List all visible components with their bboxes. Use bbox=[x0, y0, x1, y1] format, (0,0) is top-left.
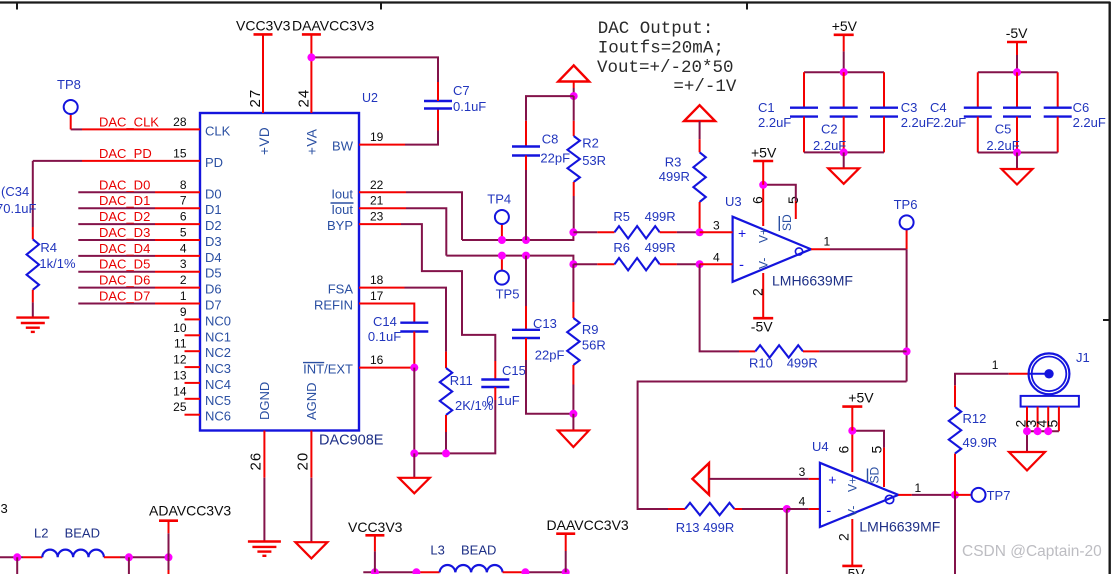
wire U4 out bbox=[912, 494, 955, 496]
junction L3/VCC3V3 bbox=[371, 568, 379, 574]
inductor L3 (BEAD) bbox=[440, 565, 503, 572]
J1 shell rect bbox=[1021, 396, 1079, 407]
power -5V bar U4 bbox=[842, 565, 862, 568]
svg-text:70.1uF: 70.1uF bbox=[0, 201, 37, 216]
resistor R5 bbox=[615, 226, 660, 238]
wire C4-C6 bottom rail bbox=[978, 152, 1058, 154]
svg-text:NC1: NC1 bbox=[205, 329, 231, 344]
svg-text:DAC Output:: DAC Output: bbox=[598, 19, 714, 39]
resistor R6 bbox=[615, 258, 660, 270]
junction C13/R9 gnd node bbox=[569, 410, 577, 418]
resistor R3 top lead bbox=[699, 139, 701, 152]
resistor R9 bbox=[567, 318, 579, 365]
svg-text:LMH6639MF: LMH6639MF bbox=[772, 273, 853, 289]
wire C13 to gnd node bbox=[526, 360, 573, 414]
junction L2/ADAVCC3V3 bbox=[165, 553, 173, 561]
wire gnd rail stub bbox=[413, 453, 415, 477]
svg-text:13: 13 bbox=[173, 368, 187, 382]
svg-text:5: 5 bbox=[869, 446, 885, 454]
svg-text:3: 3 bbox=[713, 219, 720, 233]
capacitor C13 bbox=[512, 329, 540, 331]
svg-text:25: 25 bbox=[173, 400, 187, 414]
wire L2 row left bbox=[0, 556, 23, 558]
junction L3 b bbox=[412, 568, 420, 574]
capacitor C2 top lead bbox=[843, 72, 845, 108]
wire pin22 stub bbox=[359, 191, 406, 193]
svg-text:C5: C5 bbox=[995, 122, 1012, 137]
svg-text:4: 4 bbox=[180, 241, 187, 255]
connector J1 coax bbox=[1029, 373, 1046, 375]
capacitor C3 bbox=[870, 106, 898, 108]
svg-text:6: 6 bbox=[180, 210, 187, 224]
U3 pin 3 stub bbox=[700, 231, 733, 233]
svg-text:4: 4 bbox=[713, 251, 720, 265]
svg-text:C7: C7 bbox=[453, 83, 470, 98]
wire row A bbox=[462, 232, 573, 240]
wire R5 right bbox=[677, 231, 700, 233]
U4 pin 4 stub bbox=[809, 508, 820, 510]
power +5V (U3) bbox=[762, 161, 764, 185]
power DAAVCC3V3 bar bbox=[302, 33, 321, 36]
svg-text:R6: R6 bbox=[613, 240, 630, 255]
svg-text:Iout: Iout bbox=[331, 202, 353, 217]
svg-text:-5V: -5V bbox=[1006, 25, 1028, 41]
power -5V bar U3 bbox=[753, 317, 773, 320]
wire drop a bbox=[16, 557, 18, 574]
svg-text:499R: 499R bbox=[645, 240, 676, 255]
inductor L3 right lead bbox=[503, 571, 526, 573]
resistor R11 bbox=[440, 368, 452, 415]
wire net DAC_CLK bbox=[71, 128, 82, 130]
wire L3 row right bbox=[525, 571, 565, 573]
capacitor C15 bottom lead bbox=[494, 387, 496, 400]
wire net DAC_D0 bbox=[78, 191, 155, 193]
svg-text:(C34: (C34 bbox=[1, 184, 29, 199]
svg-text:DGND: DGND bbox=[257, 382, 272, 420]
junction C13/rowB bbox=[522, 252, 530, 260]
svg-text:499R: 499R bbox=[787, 356, 818, 371]
junction U4 +5V bbox=[848, 427, 856, 435]
wire pin4 down to R10 bbox=[700, 264, 739, 351]
wire PD to R4 bbox=[32, 161, 34, 227]
capacitor C3 bottom lead bbox=[883, 117, 885, 153]
svg-text:V+: V+ bbox=[846, 477, 860, 492]
svg-text:CLK: CLK bbox=[205, 123, 231, 138]
svg-text:4: 4 bbox=[799, 495, 806, 509]
wire C1-C3 bottom rail bbox=[804, 151, 884, 153]
wire out node down bbox=[954, 495, 956, 574]
svg-text:R12: R12 bbox=[963, 411, 987, 426]
wire R9 to gnd node bbox=[572, 385, 574, 414]
svg-text:D6: D6 bbox=[205, 282, 222, 297]
svg-text:11: 11 bbox=[174, 337, 187, 351]
power +5V (U4) bbox=[851, 407, 853, 431]
svg-text:20: 20 bbox=[295, 452, 312, 471]
junction J1 pin4 bbox=[1044, 427, 1052, 435]
svg-text:AGND: AGND bbox=[304, 382, 319, 420]
inductor L2 right lead bbox=[104, 556, 120, 558]
svg-text:C4: C4 bbox=[930, 100, 947, 115]
junction top rail +5V bbox=[840, 68, 848, 76]
U2 pin 25 (NC6) stub bbox=[185, 414, 201, 416]
svg-text:FSA: FSA bbox=[328, 282, 354, 297]
wire R2 to R5 node bbox=[573, 196, 575, 232]
power VCC3V3 bar bbox=[254, 33, 273, 36]
svg-text:VCC3V3: VCC3V3 bbox=[348, 519, 403, 535]
svg-text:10: 10 bbox=[173, 321, 187, 335]
svg-text:-: - bbox=[739, 257, 744, 274]
wire FSA to R11 bbox=[405, 288, 447, 352]
test point TP8 stub bbox=[70, 114, 72, 130]
svg-text:LMH6639MF: LMH6639MF bbox=[859, 519, 940, 535]
svg-text:17: 17 bbox=[370, 289, 384, 303]
svg-text:6: 6 bbox=[836, 446, 852, 454]
svg-text:1: 1 bbox=[992, 358, 999, 372]
test point TP4 bbox=[495, 210, 509, 224]
svg-text:3: 3 bbox=[180, 257, 187, 271]
resistor R9 top lead bbox=[572, 302, 574, 318]
svg-text:12: 12 bbox=[173, 353, 187, 367]
U2 pin 24 (+VA) bbox=[310, 34, 312, 113]
wire net DAC_D5 bbox=[78, 271, 155, 273]
svg-text:28: 28 bbox=[173, 115, 187, 129]
wire C1-C3 top rail bbox=[804, 71, 884, 73]
svg-text:DAC_D1: DAC_D1 bbox=[99, 193, 150, 208]
capacitor C6 bottom lead bbox=[1057, 117, 1059, 153]
resistor R2 top lead bbox=[573, 121, 575, 136]
svg-text:SD: SD bbox=[780, 214, 794, 231]
junction R11/gnd rail bbox=[442, 449, 450, 457]
svg-text:5: 5 bbox=[785, 196, 801, 204]
capacitor C7 top lead bbox=[437, 82, 439, 101]
power -5V (C4-C6) bbox=[1016, 42, 1018, 55]
svg-text:TP7: TP7 bbox=[987, 488, 1011, 503]
svg-text:22pF: 22pF bbox=[535, 348, 565, 363]
wire C-group gnd stub bbox=[843, 152, 845, 168]
wire net DAC_D6 bbox=[78, 287, 155, 289]
J1 pin 3 stub bbox=[1037, 407, 1039, 432]
svg-text:NC2: NC2 bbox=[205, 345, 231, 360]
capacitor C1 bbox=[790, 106, 818, 108]
resistor R3 bbox=[693, 152, 705, 202]
wire C4-C6 gnd stub bbox=[1016, 153, 1018, 170]
wire C7 top to +VA bbox=[311, 57, 438, 82]
capacitor C13 top lead bbox=[525, 306, 527, 330]
power +5V (C1-C3) bbox=[843, 35, 845, 52]
U2 pin 13 (NC4) stub bbox=[185, 382, 201, 384]
svg-text:TP5: TP5 bbox=[496, 287, 520, 302]
resistor R3 bottom lead bbox=[699, 202, 701, 232]
svg-text:+: + bbox=[738, 225, 746, 241]
power arrow above R3 bbox=[684, 105, 715, 121]
wire R10 right bbox=[819, 350, 906, 352]
svg-text:-: - bbox=[826, 503, 831, 520]
capacitor C5 bottom lead bbox=[1016, 117, 1018, 153]
svg-text:1: 1 bbox=[915, 481, 922, 495]
wire R12 to J1 bbox=[955, 374, 1009, 386]
svg-text:2.2uF: 2.2uF bbox=[986, 138, 1019, 153]
svg-text:PD: PD bbox=[205, 155, 223, 170]
capacitor C4 bottom lead bbox=[977, 117, 979, 153]
svg-text:5: 5 bbox=[180, 226, 187, 240]
resistor R12 bbox=[949, 407, 961, 454]
svg-text:7: 7 bbox=[180, 194, 187, 208]
sheet border top line bbox=[0, 1, 1111, 3]
svg-text:R4: R4 bbox=[40, 240, 57, 255]
svg-text:NC5: NC5 bbox=[205, 393, 231, 408]
U4 pin 5 stub bbox=[883, 448, 885, 487]
junction bottom rail C5 bbox=[1013, 149, 1021, 157]
svg-text:-5V: -5V bbox=[751, 319, 773, 335]
svg-text:15: 15 bbox=[173, 146, 187, 160]
svg-text:2.2uF: 2.2uF bbox=[758, 115, 791, 130]
U2 pin 20 (AGND) bbox=[310, 431, 312, 478]
svg-text:DAC_D4: DAC_D4 bbox=[99, 241, 150, 256]
wire INT/EXT to ground bbox=[413, 368, 415, 454]
wire net DAC_D7 bbox=[78, 303, 155, 305]
svg-text:DAC_D2: DAC_D2 bbox=[99, 209, 150, 224]
J1 pin 2 stub bbox=[1026, 407, 1028, 432]
junction U4 pin4 bbox=[783, 505, 791, 513]
U2 pin 9 (NC0) stub bbox=[185, 318, 201, 320]
svg-text:24: 24 bbox=[295, 89, 312, 108]
svg-text:C15: C15 bbox=[502, 363, 526, 378]
svg-text:C2: C2 bbox=[821, 122, 838, 137]
wire net DAC_D2 bbox=[78, 223, 155, 225]
svg-text:+: + bbox=[828, 471, 836, 487]
wire TP6 node down bbox=[906, 249, 908, 381]
ground (earth) DGND bbox=[248, 540, 281, 542]
power arrow VOUTA bbox=[558, 65, 589, 81]
capacitor C5 bbox=[1003, 106, 1031, 108]
junction bottom rail C2 bbox=[840, 148, 848, 156]
svg-text:NC6: NC6 bbox=[205, 409, 231, 424]
svg-text:499R: 499R bbox=[645, 209, 676, 224]
U2 pin 14 (NC5) stub bbox=[185, 398, 201, 400]
wire rowB node to R9 bbox=[572, 264, 574, 302]
resistor R4 bottom lead bbox=[32, 290, 34, 303]
wire R3 arrow stem bbox=[699, 121, 701, 139]
svg-text:19: 19 bbox=[370, 130, 384, 144]
svg-text:DAC_D6: DAC_D6 bbox=[99, 273, 150, 288]
svg-text:2.2uF: 2.2uF bbox=[901, 115, 934, 130]
svg-text:1: 1 bbox=[824, 235, 831, 249]
svg-text:DAAVCC3V3: DAAVCC3V3 bbox=[292, 18, 374, 34]
svg-text:=+/-1V: =+/-1V bbox=[673, 77, 737, 97]
svg-text:C13: C13 bbox=[533, 316, 557, 331]
capacitor C15 top lead bbox=[494, 361, 496, 380]
junction J1 pin3 bbox=[1034, 427, 1042, 435]
wire U4 SD tie bbox=[852, 431, 884, 448]
power VCC3V3 (bottom) bbox=[374, 535, 376, 551]
svg-text:27: 27 bbox=[247, 89, 264, 108]
wire arrow to U4 pin3 bbox=[709, 478, 809, 480]
U4 pin 3 stub bbox=[809, 478, 820, 480]
svg-text:D1: D1 bbox=[205, 202, 222, 217]
svg-text:2: 2 bbox=[750, 288, 766, 296]
junction U3 +5V bbox=[759, 181, 767, 189]
border zone tick 1 bbox=[16, 3, 18, 10]
svg-text:Ioutfs=20mA;: Ioutfs=20mA; bbox=[598, 38, 724, 58]
svg-text:R9: R9 bbox=[582, 322, 599, 337]
test point TP8 bbox=[64, 100, 78, 114]
svg-text:DAC_PD: DAC_PD bbox=[99, 146, 152, 161]
junction U4 out/R12/TP7 bbox=[951, 491, 959, 499]
wire L3 row left bbox=[363, 571, 417, 573]
wire pin21 stub bbox=[359, 207, 406, 209]
svg-text:D0: D0 bbox=[205, 186, 222, 201]
svg-text:3: 3 bbox=[799, 465, 806, 479]
svg-text:DAC908E: DAC908E bbox=[319, 433, 384, 449]
svg-text:53R: 53R bbox=[582, 153, 606, 168]
power +5V bar U3 bbox=[753, 160, 773, 163]
svg-text:1: 1 bbox=[180, 289, 187, 303]
U3 pin 1 output stub bbox=[811, 248, 830, 250]
resistor R12 bottom lead bbox=[954, 454, 956, 495]
junction L2 row a bbox=[13, 553, 21, 561]
capacitor C14 bbox=[400, 322, 428, 324]
svg-text:21: 21 bbox=[370, 194, 384, 208]
wire J1 shield bus bbox=[1027, 431, 1059, 452]
wire arrow node to R2 bbox=[573, 96, 575, 121]
U2 pin 10 (NC1) stub bbox=[185, 334, 201, 336]
svg-text:8: 8 bbox=[180, 178, 187, 192]
svg-text:23: 23 bbox=[370, 210, 384, 224]
test point TP5 bbox=[495, 271, 509, 285]
svg-text:V-: V- bbox=[757, 258, 771, 269]
resistor R5 left lead bbox=[597, 231, 614, 233]
svg-text:D2: D2 bbox=[205, 218, 222, 233]
junction R10/fb bbox=[903, 347, 911, 355]
svg-text:VCC3V3: VCC3V3 bbox=[236, 18, 291, 34]
svg-text:CSDN @Captain-20: CSDN @Captain-20 bbox=[962, 543, 1102, 560]
wire pin16 stub bbox=[359, 367, 414, 369]
svg-text:+VA: +VA bbox=[304, 129, 319, 155]
capacitor C4 top lead bbox=[977, 72, 979, 107]
wire arrow node to C8 bbox=[526, 96, 574, 121]
svg-text:16: 16 bbox=[370, 353, 384, 367]
U3 pin 6 (V+) stub bbox=[762, 185, 764, 226]
svg-text:NC3: NC3 bbox=[205, 361, 231, 376]
power VCC3V3 bottom bar bbox=[365, 534, 384, 537]
svg-text:BW: BW bbox=[332, 139, 354, 154]
wire U3 out to TP6 bbox=[830, 248, 907, 250]
svg-text:R10: R10 bbox=[749, 356, 773, 371]
wire pin21 to row B bbox=[406, 208, 446, 255]
svg-text:U3: U3 bbox=[725, 194, 742, 209]
ground C4-C6 bbox=[1002, 169, 1033, 185]
svg-text:3: 3 bbox=[1, 501, 8, 516]
svg-text:0.1uF: 0.1uF bbox=[453, 99, 486, 114]
resistor R13 bbox=[685, 503, 735, 515]
svg-text:+5V: +5V bbox=[848, 390, 874, 406]
resistor R10 left lead bbox=[739, 350, 755, 352]
svg-text:2: 2 bbox=[180, 273, 187, 287]
svg-text:Iout: Iout bbox=[331, 186, 353, 201]
resistor R10 bbox=[755, 345, 803, 357]
test point TP5 stub bbox=[501, 256, 503, 271]
junction C8/rowA bbox=[522, 236, 530, 244]
resistor R6 right lead bbox=[660, 263, 677, 265]
svg-text:DAC_D0: DAC_D0 bbox=[99, 177, 150, 192]
test point TP7 bbox=[972, 488, 986, 502]
svg-text:56R: 56R bbox=[582, 338, 606, 353]
svg-text:+VD: +VD bbox=[257, 127, 272, 155]
wire gnd node stub bbox=[572, 414, 574, 430]
svg-text:+5V: +5V bbox=[832, 18, 858, 34]
resistor R9 bottom lead bbox=[572, 365, 574, 385]
wire R6 left bbox=[573, 263, 597, 265]
resistor R2 bottom lead bbox=[573, 182, 575, 196]
wire arrow stem bbox=[573, 82, 575, 89]
svg-text:D7: D7 bbox=[205, 298, 222, 313]
capacitor C8 bbox=[512, 145, 540, 147]
resistor R10 right lead bbox=[803, 350, 819, 352]
inductor L2 left lead bbox=[23, 556, 42, 558]
wire R11 to gnd rail bbox=[445, 432, 447, 453]
svg-text:-5V: -5V bbox=[843, 566, 865, 574]
power +5V bar C-group bbox=[834, 33, 854, 36]
wire net DAC_PD bbox=[33, 160, 82, 162]
svg-text:499R: 499R bbox=[659, 169, 690, 184]
U4 output bubble glyph bbox=[885, 495, 893, 503]
resistor R4 top lead bbox=[32, 227, 34, 239]
inductor L3 left lead bbox=[417, 571, 440, 573]
wire row B bbox=[446, 256, 573, 265]
svg-text:DAC_D5: DAC_D5 bbox=[99, 257, 150, 272]
border zone tick right bbox=[1103, 319, 1109, 321]
capacitor C8 bottom lead bbox=[525, 156, 527, 171]
svg-text:49.9R: 49.9R bbox=[963, 435, 998, 450]
svg-text:SD: SD bbox=[868, 466, 882, 483]
border zone tick 2 bbox=[380, 3, 382, 10]
sheet border right line bbox=[1108, 2, 1110, 574]
svg-text:J1: J1 bbox=[1076, 350, 1090, 365]
junction R2/R5/rowA bbox=[569, 228, 577, 236]
wire R6 right bbox=[677, 263, 700, 265]
junction R6/rowB bbox=[569, 260, 577, 268]
wire pin4 node down bbox=[786, 509, 788, 574]
wire C4-C6 top rail bbox=[978, 71, 1058, 73]
svg-text:L3: L3 bbox=[430, 543, 444, 558]
U4 pin 6 stub bbox=[851, 431, 853, 472]
wire rowB to C13 bbox=[525, 256, 527, 306]
svg-text:C3: C3 bbox=[901, 100, 918, 115]
capacitor C14 bottom lead bbox=[413, 332, 415, 368]
junction TP5/rowB bbox=[498, 252, 506, 260]
wire R5 left bbox=[573, 231, 597, 233]
svg-text:TP4: TP4 bbox=[487, 192, 511, 207]
U2 pin 12 (NC3) stub bbox=[185, 366, 201, 368]
J1 pin 1 stub bbox=[1009, 373, 1029, 375]
wire pin19 corner bbox=[405, 131, 438, 145]
resistor R13 right lead bbox=[735, 508, 743, 510]
svg-text:2K/1%: 2K/1% bbox=[455, 398, 494, 413]
svg-text:D5: D5 bbox=[205, 266, 222, 281]
junction R3/R5/pin3 bbox=[696, 228, 704, 236]
wire fb long run bbox=[638, 382, 907, 510]
capacitor C7 bbox=[424, 100, 452, 102]
svg-text:L2: L2 bbox=[34, 526, 48, 541]
svg-text:5: 5 bbox=[1044, 420, 1060, 428]
svg-text:NC0: NC0 bbox=[205, 313, 231, 328]
border zone tick 3 bbox=[746, 3, 748, 10]
wire C15 bottom to gnd rail bbox=[414, 400, 495, 453]
wire drop c bbox=[168, 557, 170, 570]
svg-text:1k/1%: 1k/1% bbox=[39, 256, 76, 271]
wire net DAC_D4 bbox=[78, 255, 155, 257]
ground (earth) below R4 bbox=[16, 316, 49, 318]
